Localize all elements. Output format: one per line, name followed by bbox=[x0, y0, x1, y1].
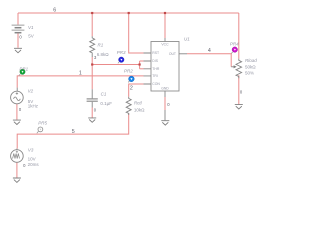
svg-text:PR4: PR4 bbox=[230, 41, 239, 46]
svg-text:Rctl: Rctl bbox=[134, 101, 143, 106]
svg-text:V2: V2 bbox=[28, 89, 34, 94]
svg-text:0: 0 bbox=[19, 34, 22, 39]
svg-text:OUT: OUT bbox=[169, 52, 176, 56]
svg-text:THR: THR bbox=[152, 67, 160, 71]
svg-text:4: 4 bbox=[208, 48, 211, 54]
svg-text:PR5: PR5 bbox=[38, 120, 47, 125]
svg-text:DIS: DIS bbox=[152, 59, 158, 63]
svg-text:0: 0 bbox=[19, 107, 22, 112]
svg-text:1: 1 bbox=[79, 71, 82, 77]
svg-text:V1: V1 bbox=[28, 25, 34, 30]
svg-text:V3: V3 bbox=[28, 147, 34, 152]
svg-text:Rload: Rload bbox=[245, 58, 257, 63]
svg-text:C1: C1 bbox=[101, 91, 107, 96]
svg-text:10kΩ: 10kΩ bbox=[134, 108, 145, 113]
svg-text:PR2: PR2 bbox=[124, 69, 133, 74]
svg-text:TRI: TRI bbox=[152, 74, 158, 78]
svg-text:0.1µF: 0.1µF bbox=[100, 101, 112, 106]
svg-text:6.8kΩ: 6.8kΩ bbox=[97, 52, 110, 57]
svg-text:50kΩ: 50kΩ bbox=[245, 65, 256, 70]
svg-text:PR1: PR1 bbox=[19, 66, 28, 71]
svg-text:0: 0 bbox=[240, 89, 243, 94]
svg-text:0: 0 bbox=[167, 102, 170, 107]
svg-text:CON: CON bbox=[152, 82, 160, 86]
svg-text:GND: GND bbox=[161, 87, 169, 91]
svg-text:VCC: VCC bbox=[161, 42, 169, 46]
svg-text:RST: RST bbox=[152, 51, 159, 55]
svg-text:R1: R1 bbox=[98, 42, 104, 47]
svg-text:50%: 50% bbox=[245, 71, 254, 76]
svg-text:2: 2 bbox=[130, 86, 133, 92]
svg-text:PR3: PR3 bbox=[117, 50, 126, 55]
svg-text:1kHz: 1kHz bbox=[28, 103, 39, 108]
svg-text:20ms: 20ms bbox=[28, 162, 40, 167]
svg-text:U1: U1 bbox=[184, 37, 190, 42]
svg-text:0: 0 bbox=[23, 163, 26, 168]
svg-text:6: 6 bbox=[53, 7, 56, 13]
svg-text:0: 0 bbox=[94, 107, 97, 112]
svg-text:10V: 10V bbox=[28, 156, 36, 161]
svg-text:5: 5 bbox=[72, 129, 75, 135]
svg-text:5V: 5V bbox=[28, 33, 34, 38]
